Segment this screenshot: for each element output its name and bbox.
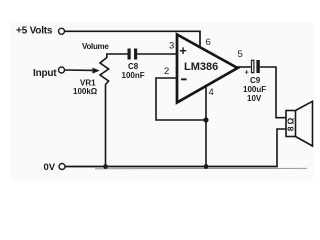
terminal Input [59,67,65,73]
svg-text:100kΩ: 100kΩ [73,87,98,96]
svg-text:Input: Input [33,68,57,79]
op-amp U1 LM386 [177,35,238,103]
speaker cone [296,101,313,146]
wire C8 to pin 3 [137,53,177,55]
terminal +5V [59,28,65,34]
wire scan artifact line [95,167,307,170]
svg-text:8Ω: 8Ω [285,116,295,132]
svg-text:6: 6 [206,37,211,48]
wire pot top to C8 [106,53,128,55]
svg-text:LM386: LM386 [184,61,218,73]
svg-text:0V: 0V [44,162,56,173]
speaker LS1 body [286,111,296,137]
junction pot/0V [103,164,108,169]
terminal 0V [59,164,65,170]
svg-text:+: + [245,68,250,77]
svg-text:+5 Volts: +5 Volts [16,26,53,37]
wire wiper arrow [65,69,94,71]
junction pin4/0V [204,164,209,169]
capacitor C8 [128,49,131,60]
svg-text:C8: C8 [128,62,139,71]
wire pin 4 to ground rail [205,87,207,167]
wire pin 2 feedback [156,78,206,120]
wire speaker bottom to ground rail [277,129,286,167]
svg-text:10V: 10V [247,94,262,103]
svg-text:100nF: 100nF [122,71,145,80]
wire C9 to speaker top [260,67,286,118]
svg-text:C9: C9 [250,76,261,85]
svg-text:100uF: 100uF [243,85,266,94]
junction feedback/pin4 [203,117,208,122]
svg-text:+: + [179,43,187,58]
svg-text:4: 4 [209,87,214,98]
potentiometer VR1 [100,54,109,167]
wire output pin 5 [237,66,251,68]
wire 0V rail [65,166,277,168]
wire +5V rail to pin 6 [65,31,200,48]
svg-text:2: 2 [164,66,169,77]
svg-text:3: 3 [169,41,174,52]
scan panel background [10,22,313,181]
svg-text:5: 5 [238,49,243,60]
capacitor C9 [252,60,254,72]
svg-text:Volume: Volume [82,42,109,51]
